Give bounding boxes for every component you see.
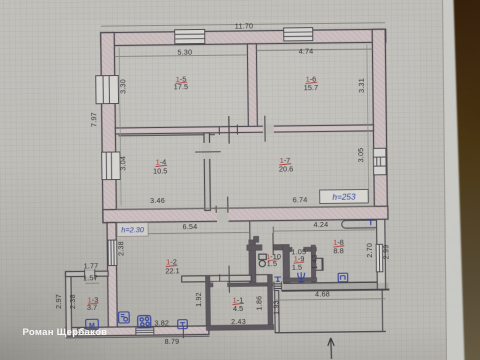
dimension line 8.79	[66, 336, 209, 338]
door jamb tick 1-6/1-7	[264, 116, 266, 142]
svg-text:2.43: 2.43	[231, 317, 246, 326]
door arc hall 1-8	[342, 220, 376, 228]
svg-text:1.92: 1.92	[194, 292, 203, 307]
svg-text:4.68: 4.68	[315, 289, 330, 298]
svg-text:22.1: 22.1	[165, 266, 179, 275]
duct niche right of room 1-9	[315, 258, 323, 270]
h=230 note box	[117, 223, 148, 237]
room label 1-2	[165, 257, 180, 275]
svg-text:3.31: 3.31	[357, 78, 366, 93]
dimension line 1.57	[85, 282, 99, 284]
svg-text:1.86: 1.86	[254, 296, 263, 311]
blue symbol: door mark hall	[368, 220, 374, 225]
svg-text:1.5: 1.5	[292, 263, 302, 272]
room label 1-5	[174, 75, 189, 91]
svg-text:h=2.30: h=2.30	[121, 225, 145, 234]
door gap 1-4/1-7	[202, 143, 212, 159]
svg-text:6.54: 6.54	[183, 222, 198, 231]
svg-text:2.97: 2.97	[54, 294, 63, 309]
door gap room 1-9	[292, 246, 303, 253]
door gap room 1-1	[213, 282, 227, 289]
door jamb tick short	[218, 127, 220, 135]
wall: right exterior	[372, 29, 387, 219]
wall stub top of 1-10 left wall	[253, 236, 258, 242]
wall: interior horizontal between room rows	[115, 125, 373, 134]
dimension line 5.30	[114, 55, 247, 57]
svg-text:5.30: 5.30	[177, 48, 192, 57]
blue symbol: washing machine room 1-3	[86, 319, 99, 329]
dimension line 4.24	[274, 230, 375, 231]
dark table edge	[454, 0, 480, 360]
svg-text:8.79: 8.79	[165, 337, 180, 346]
svg-text:3.04: 3.04	[118, 156, 127, 171]
wall: between 1-10 and 1-9	[283, 244, 290, 282]
wall: bottom of hall/1-8 section	[283, 282, 377, 283]
dimension line 4.74	[256, 49, 372, 50]
svg-text:2.99: 2.99	[381, 244, 390, 259]
long door jamb tick room 1-1	[228, 266, 230, 293]
svg-text:3.82: 3.82	[154, 318, 169, 327]
svg-text:4.74: 4.74	[299, 47, 314, 56]
wall: top of room 1-9	[283, 247, 317, 252]
wall: room 1-2 right (to hall)	[249, 240, 256, 284]
room label 1-8	[333, 238, 344, 256]
svg-text:11.70: 11.70	[235, 21, 254, 30]
svg-text:3.05: 3.05	[356, 148, 365, 163]
door jamb ticks thick wall	[215, 206, 217, 213]
floor line room 1-10	[255, 274, 269, 276]
door tick in bottom wall	[182, 326, 184, 338]
entry steps to porch	[274, 282, 282, 291]
svg-text:1.43: 1.43	[310, 254, 319, 269]
inner top line of room 1-4	[118, 135, 214, 136]
svg-text:Роман Щербаков: Роман Щербаков	[23, 327, 108, 338]
blue symbol: boiler room 1-2	[178, 320, 188, 329]
door gap 1-6/1-7	[263, 124, 274, 134]
svg-text:1.93: 1.93	[271, 300, 280, 315]
room label 1-6	[304, 74, 319, 92]
wall: divider 1-2/1-1 vertical	[205, 276, 210, 327]
wall: right of room 1-9	[311, 245, 316, 282]
room label 1-4	[153, 157, 168, 175]
window: right wall (room 1-7)	[373, 148, 386, 175]
floor plan drawing (slightly rotated like the photo)	[51, 20, 392, 360]
annex room 1-3 top wall	[66, 271, 109, 277]
blue symbol: shower room 1-9	[298, 272, 305, 283]
annex top wall door gap	[85, 271, 94, 277]
svg-text:2.38: 2.38	[116, 241, 125, 256]
svg-text:3.46: 3.46	[150, 196, 165, 205]
door gap in thick wall (room 1-7 to lower hall)	[217, 209, 229, 223]
svg-text:3.30: 3.30	[118, 79, 127, 94]
room label 1-10	[266, 252, 281, 268]
wall: bottom exterior left part	[66, 326, 209, 336]
door jamb tick 1-4/1-7	[195, 151, 220, 153]
annex door ticks	[84, 269, 86, 279]
wall: room 1-1 bottom	[206, 325, 274, 331]
dimension line above thick wall	[116, 206, 374, 209]
room label 1-9	[292, 254, 305, 271]
svg-text:20.6: 20.6	[279, 164, 293, 173]
wall: top of rooms 1-10/1-9	[247, 244, 283, 250]
wall: thick middle (between upper and lower blocks)	[103, 206, 388, 222]
thin wall line above	[249, 221, 251, 240]
svg-text:1.77: 1.77	[84, 261, 99, 270]
wall: top exterior	[101, 29, 386, 45]
svg-text:2.38: 2.38	[68, 294, 77, 309]
wall: left exterior (upper block)	[101, 33, 117, 223]
window in left lower wall (room 1-2)	[108, 240, 117, 266]
room label 1-1	[233, 295, 245, 313]
entrance arrow	[328, 338, 335, 359]
svg-text:3.7: 3.7	[87, 303, 97, 312]
dimension line 11.70	[101, 23, 385, 26]
room label 1-3	[87, 295, 99, 312]
sheet edge line	[443, 0, 447, 360]
svg-text:10.5: 10.5	[153, 166, 167, 175]
window: left wall lower (room 1-4)	[102, 152, 121, 180]
blue symbol: boiler room 1-8	[338, 273, 348, 282]
door jamb tick left of divider	[236, 125, 238, 135]
door jamb tick room 1-10	[272, 233, 274, 255]
wall: right lower (hall 1-8, double line)	[376, 219, 385, 290]
wall: left exterior (lower block)	[107, 223, 117, 328]
porch left line	[275, 291, 280, 333]
wall: interior divider rooms 1-4/1-7	[204, 133, 210, 211]
window in bottom wall (kitchen)	[136, 328, 154, 335]
dimension line right vertical	[367, 44, 369, 202]
svg-text:4.24: 4.24	[313, 220, 328, 229]
wall: room 1-1 top	[208, 283, 273, 287]
porch right line	[381, 290, 384, 331]
door gap room 1-10	[262, 243, 273, 252]
room label 1-7	[279, 156, 294, 174]
svg-text:7.97: 7.97	[89, 112, 98, 127]
dimension line 4.68	[274, 299, 385, 300]
svg-text:8.8: 8.8	[333, 246, 343, 255]
wall: interior divider rooms 1-5/1-6	[247, 44, 257, 131]
blue symbol: mark room 1-10	[274, 277, 281, 281]
svg-text:6.74: 6.74	[293, 195, 308, 204]
tick on 1-2 bottom wall	[219, 274, 221, 284]
tick for 4.24 dimension	[272, 227, 274, 233]
svg-text:h=253: h=253	[332, 193, 356, 202]
svg-text:1.57: 1.57	[83, 273, 98, 282]
window: top wall left (room 1-5)	[175, 29, 205, 43]
svg-text:17.5: 17.5	[174, 82, 188, 91]
porch bottom line	[275, 331, 386, 332]
toilet room 1-10	[259, 254, 267, 267]
window in bottom wall (annex)	[77, 329, 96, 336]
dimension line left vertical	[119, 47, 121, 205]
h=253 note box	[320, 189, 369, 203]
blue symbol: sink room 1-2	[119, 312, 130, 323]
svg-text:1.5: 1.5	[267, 259, 277, 268]
svg-text:15.7: 15.7	[304, 83, 318, 92]
blue symbol: stove room 1-2	[138, 316, 151, 328]
window: top wall right (room 1-6)	[284, 28, 313, 41]
svg-text:2.70: 2.70	[365, 243, 374, 258]
svg-text:4.5: 4.5	[233, 304, 243, 313]
wall: room 1-1 right	[267, 274, 272, 329]
texts (inside rotated group)	[51, 20, 392, 348]
wall: room 1-2 bottom-right double line	[182, 275, 252, 282]
door jamb tick 1-5/1-4 long	[228, 116, 230, 143]
dimension line 6.54	[117, 232, 251, 234]
wall: room 1-9 bottom	[283, 278, 317, 282]
annex room 1-3 left wall	[66, 272, 72, 337]
right sheet margin	[442, 0, 480, 360]
window: left wall upper (room 1-5)	[96, 75, 119, 103]
window: right wall lower (room 1-8)	[376, 244, 383, 272]
